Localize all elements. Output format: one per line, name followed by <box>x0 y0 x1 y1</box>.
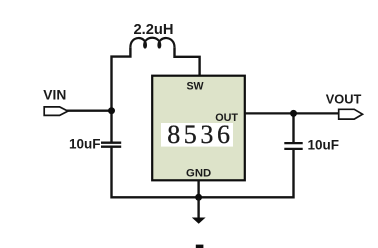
partial mark at bottom edge <box>196 245 204 248</box>
node A: input junction dot <box>108 107 115 114</box>
svg-text:SW: SW <box>186 81 203 93</box>
capacitor C2 plates (10uF) <box>284 143 302 149</box>
wire: inductor right lead to SW pin <box>175 47 200 76</box>
svg-text:10uF: 10uF <box>308 137 340 152</box>
wire: inductor left lead down to input node and capacitor C1 <box>112 47 131 141</box>
ground symbol arrow <box>192 218 206 224</box>
terminal VOUT <box>339 109 363 119</box>
svg-text:GND: GND <box>186 167 211 179</box>
svg-text:VOUT: VOUT <box>326 92 362 107</box>
wire: GND pin to ground rail <box>197 180 199 197</box>
svg-text:OUT: OUT <box>215 112 238 124</box>
ground symbol stem <box>197 197 199 217</box>
svg-text:8536: 8536 <box>167 120 233 149</box>
wire: VIN terminal to input node <box>66 110 112 112</box>
node C: ground junction dot <box>195 194 202 201</box>
wire: output node down to capacitor C2 <box>292 113 294 142</box>
op-amp/IC U1 8536 body <box>152 76 245 181</box>
wire: OUT pin to VOUT terminal <box>245 112 339 114</box>
inductor L1 2.2uH <box>130 38 174 48</box>
white value box <box>161 123 233 147</box>
node B: output junction dot <box>290 110 297 117</box>
svg-text:VIN: VIN <box>43 87 66 102</box>
capacitor C1 plates (10uF) <box>101 143 121 147</box>
terminal VIN <box>44 107 68 116</box>
svg-text:2.2uH: 2.2uH <box>134 22 174 38</box>
wire: ground rail with left and right risers <box>112 147 294 197</box>
svg-text:10uF: 10uF <box>69 137 101 152</box>
